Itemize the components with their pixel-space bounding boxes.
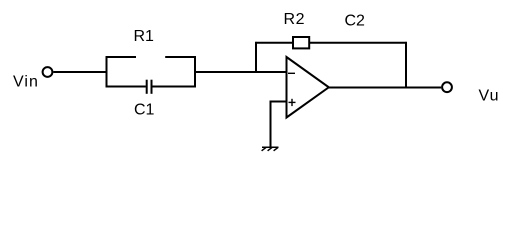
wire: feedback top segment to R2	[255, 42, 292, 44]
ground symbol	[262, 147, 279, 151]
wire: op-amp output to Vu terminal, junction with feedback at x=406	[329, 87, 441, 89]
resistor R1 lead (right stub of top branch, body not drawn)	[165, 56, 196, 58]
wire from parallel block to op-amp inverting input, junction at x=256	[194, 71, 286, 73]
wire: parallel block right vertical	[194, 56, 196, 87]
op-amp inverting input minus sign	[288, 72, 295, 74]
capacitor C1 left plate	[146, 80, 148, 94]
svg-text:C1: C1	[134, 102, 155, 119]
capacitor C2 (drawn as plain wire segment), feedback top segment right of R2	[310, 42, 407, 44]
svg-text:Vin: Vin	[13, 73, 39, 90]
svg-text:R2: R2	[284, 11, 306, 28]
resistor R1 lead (left stub of top branch, body not drawn)	[106, 56, 136, 58]
wire: bottom branch right segment	[152, 86, 196, 88]
capacitor C1 right plate	[151, 80, 153, 94]
wire: non-inverting input to ground riser	[271, 102, 287, 148]
svg-text:R1: R1	[134, 28, 155, 45]
terminal Vin (open circle)	[43, 67, 53, 77]
svg-text:Vu: Vu	[479, 87, 500, 104]
wire: feedback right vertical drop to output	[405, 42, 407, 89]
op-amp U1 triangle	[287, 57, 329, 118]
op-amp non-inverting input plus sign	[289, 99, 296, 106]
wire: parallel block left vertical	[106, 56, 108, 87]
terminal Vu (open circle)	[442, 82, 452, 92]
svg-text:C2: C2	[345, 13, 366, 30]
resistor R2 body	[293, 37, 309, 48]
wire: bottom branch left segment	[106, 86, 146, 88]
wire: feedback left vertical riser	[255, 42, 257, 73]
wire from Vin terminal to parallel block	[53, 71, 107, 73]
